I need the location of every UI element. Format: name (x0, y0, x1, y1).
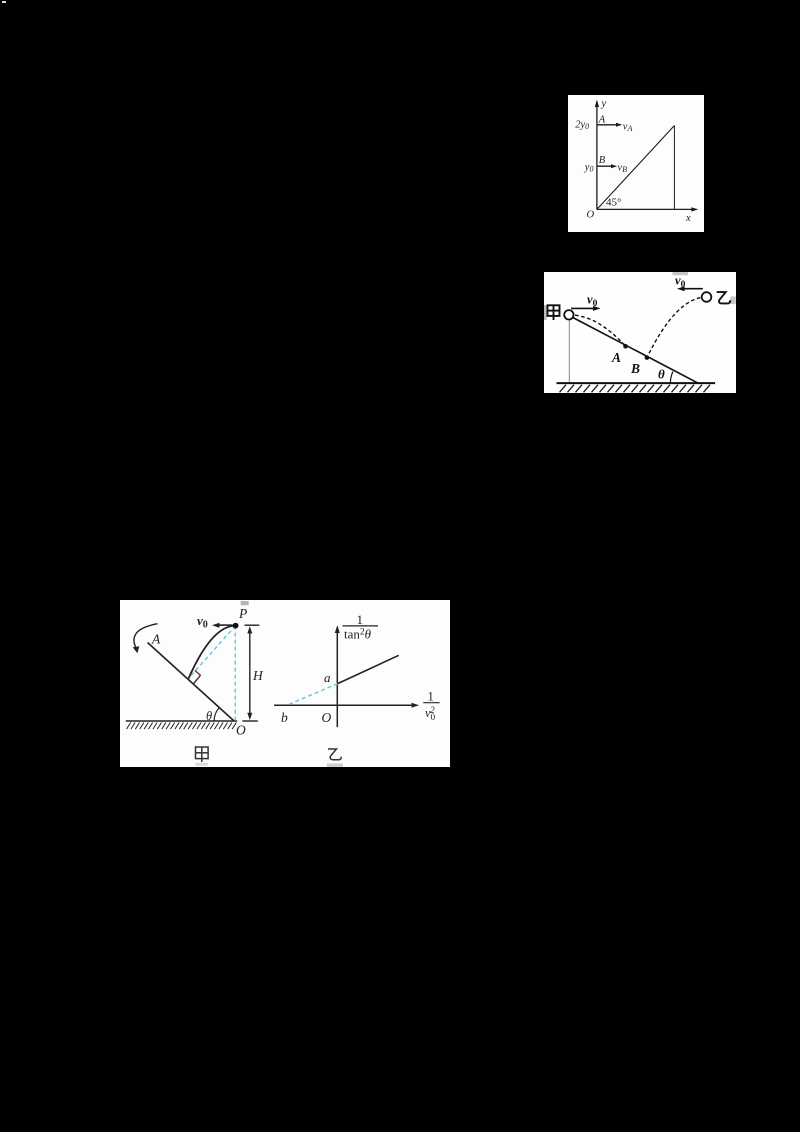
panel background (120, 600, 450, 767)
diagonal 45-degree line (597, 126, 675, 210)
rotation arrowhead (132, 646, 139, 653)
svg-text:45°: 45° (606, 197, 621, 209)
x axis arrowhead (411, 702, 419, 707)
ground line (125, 720, 236, 722)
svg-text:A: A (611, 350, 621, 365)
point A dot (623, 344, 628, 349)
left ball (564, 310, 573, 319)
v0 arrow from P (points left) (212, 622, 233, 627)
svg-text:θ: θ (206, 709, 212, 723)
dashed trajectory of right ball to B (646, 297, 706, 358)
x-axis arrowhead (691, 207, 698, 211)
character yi (right ball label) (716, 292, 730, 303)
svg-text:P: P (238, 606, 247, 621)
svg-text:x: x (685, 213, 691, 224)
grey artifact bar top (above right v0 label) (672, 272, 688, 275)
figure panel 3: rod on incline with projectile (jia) and linear graph (yi) (120, 600, 450, 767)
svg-text:y: y (601, 99, 607, 110)
rotation arrow arc (133, 623, 157, 648)
H dimension shaft (248, 630, 250, 717)
cyan dashed vertical P to O (234, 625, 236, 720)
right angle marker (dark red) (194, 670, 200, 675)
x axis label fraction: 1 over v0 squared (423, 689, 439, 722)
svg-text:a: a (324, 670, 331, 685)
svg-text:H: H (252, 668, 264, 683)
velocity arrow at A (597, 124, 618, 126)
svg-text:1: 1 (356, 611, 363, 626)
angle arc theta (670, 371, 673, 382)
svg-text:O: O (587, 210, 595, 221)
x-axis (597, 208, 695, 210)
arrowhead vA (616, 123, 622, 127)
svg-text:O: O (321, 710, 331, 725)
svg-text:v02: v02 (425, 705, 436, 722)
x axis (274, 704, 415, 706)
character jia (left ball label) (547, 305, 559, 320)
panel background (544, 272, 737, 393)
svg-text:tan2θ: tan2θ (344, 626, 372, 641)
caption yi (328, 749, 341, 760)
figure panel 2: two balls thrown from incline (544, 272, 737, 393)
panel background (568, 95, 704, 232)
cyan dashed extension to b (287, 683, 338, 705)
ground hatching (559, 384, 710, 392)
grey artifact bar below yi caption (327, 763, 343, 767)
grey vertical line under left ball (568, 319, 570, 383)
y axis (336, 629, 338, 727)
right ball (701, 292, 711, 302)
grey artifact square above P (240, 601, 248, 605)
cyan dashed chord P to landing point (188, 625, 235, 678)
svg-text:O: O (236, 722, 246, 737)
H arrowhead up (247, 626, 252, 633)
y-axis (596, 102, 598, 210)
svg-text:θ: θ (658, 366, 665, 381)
dashed trajectory of left ball to A (568, 314, 625, 346)
svg-text:B: B (599, 155, 606, 166)
y axis label fraction: 1 over tan^2 theta (342, 611, 378, 641)
point B dot (644, 355, 649, 360)
svg-text:A: A (151, 631, 161, 646)
caption jia (195, 747, 208, 762)
velocity arrow at B (597, 165, 613, 167)
vertical drop line from diagonal top (673, 126, 675, 210)
H dimension bottom cap (242, 720, 257, 722)
svg-text:B: B (630, 361, 640, 376)
grey artifact bar at left edge behind jia (544, 305, 547, 320)
point P dot (232, 622, 238, 628)
svg-text:A: A (598, 114, 606, 125)
figure panel 1: projectile v-A v-B graph (568, 95, 704, 232)
v0 arrow right ball (points left) (677, 286, 703, 291)
svg-text:vA: vA (623, 121, 633, 133)
svg-text:1: 1 (427, 689, 433, 703)
grey artifact square right of yi (730, 296, 735, 304)
H dimension top cap (244, 624, 259, 626)
solid graph line (337, 655, 398, 683)
v0 arrow left ball (571, 305, 601, 310)
tiny white speck top-left corner (2, 1, 6, 3)
svg-text:vB: vB (618, 163, 628, 175)
svg-text:b: b (281, 710, 288, 725)
incline line (570, 316, 698, 383)
arrowhead vB (611, 164, 617, 168)
ground hatching (126, 722, 236, 729)
svg-text:2y0: 2y0 (575, 120, 589, 132)
angle arc theta at O (214, 707, 219, 720)
projectile trajectory curve (188, 625, 235, 678)
grey artifact bar below jia caption (195, 762, 208, 765)
y-axis arrowhead (595, 100, 599, 107)
incline rod (147, 642, 234, 721)
ground line (556, 382, 715, 384)
svg-text:y0: y0 (584, 162, 594, 174)
H arrowhead down (247, 712, 252, 719)
y axis arrowhead (334, 625, 339, 633)
